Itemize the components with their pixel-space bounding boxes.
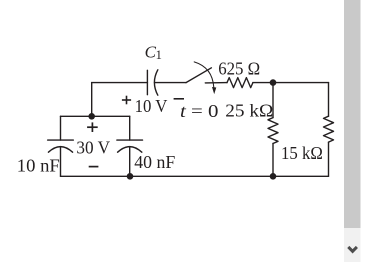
svg-text:25 kΩ: 25 kΩ	[225, 101, 273, 121]
svg-text:40 nF: 40 nF	[134, 152, 175, 172]
switch SW1 blade (closes at t=0)	[186, 62, 216, 94]
node C junction dot	[127, 173, 134, 180]
wire node A to top-right corner	[273, 82, 329, 84]
wire top-left vertical	[91, 83, 93, 117]
label + polarity of 10 V (drawn)	[122, 96, 131, 105]
node D junction dot	[88, 113, 95, 120]
resistor R2 25 kohm	[268, 118, 278, 144]
wire middle branch upper	[272, 83, 274, 118]
svg-text:1: 1	[156, 48, 162, 62]
svg-text:15 kΩ: 15 kΩ	[281, 143, 323, 163]
wire bottom horizontal	[61, 175, 329, 177]
svg-text:t = 0: t = 0	[180, 101, 219, 121]
node A junction dot	[270, 79, 277, 86]
svg-text:10 nF: 10 nF	[17, 155, 60, 175]
scrollbar down arrow	[348, 247, 357, 251]
svg-text:10 V: 10 V	[135, 96, 168, 116]
label + polarity of 30 V (drawn)	[87, 122, 98, 132]
svg-text:625 Ω: 625 Ω	[218, 59, 260, 79]
wire C1 to switch	[155, 82, 186, 84]
label - polarity of 10 V (drawn)	[174, 98, 184, 100]
wire top horizontal to C1	[92, 82, 148, 84]
capacitor C1	[147, 70, 157, 95]
scrollbar track	[344, 0, 361, 262]
wire caps box top	[61, 115, 130, 117]
label - polarity of 30 V (drawn)	[89, 166, 99, 168]
wire switch to resistor R1	[205, 82, 227, 84]
resistor R3 15 kohm	[324, 116, 334, 142]
node B junction dot	[270, 173, 277, 180]
wire R1 to node A	[253, 82, 273, 84]
capacitor C3 40 nF	[117, 116, 143, 176]
wire right branch lower	[328, 142, 330, 176]
scrollbar thumb	[344, 0, 361, 228]
resistor R1 625 ohm	[227, 78, 253, 88]
svg-text:30 V: 30 V	[76, 138, 110, 158]
wire right branch upper	[328, 83, 330, 117]
wire middle branch lower	[272, 144, 274, 177]
capacitor C2 10 nF	[48, 116, 74, 176]
